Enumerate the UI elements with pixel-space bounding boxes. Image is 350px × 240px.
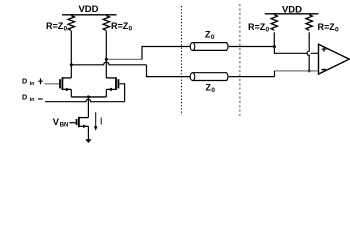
transistor M1 (left of diff pair) bbox=[59, 79, 61, 88]
node dot tail bbox=[87, 95, 90, 98]
transistor M3 (tail current source) bbox=[76, 119, 78, 125]
svg-text:R=Z: R=Z bbox=[248, 22, 266, 32]
wire left resistor to M1 drain bbox=[70, 31, 72, 78]
node dot M2 drain bbox=[105, 58, 108, 61]
svg-text:R=Z: R=Z bbox=[318, 22, 336, 32]
svg-text:0: 0 bbox=[64, 26, 68, 33]
op-amp receiver bbox=[319, 44, 350, 74]
wire M2 gate lead bbox=[118, 84, 124, 102]
ground bbox=[85, 139, 91, 143]
resistor R=Z0 (left section, left) bbox=[68, 16, 74, 31]
wire M1 drain node to bottom line (hops over M2 drain wire) bbox=[71, 62, 146, 65]
transmission line Z0 (bottom) bbox=[193, 73, 229, 81]
resistor R=Z0 (right section, left) bbox=[271, 15, 277, 31]
wire VDD rail right bbox=[265, 13, 319, 15]
wire Din+ to M1 gate bbox=[45, 83, 60, 85]
transistor M2 (right of diff pair) bbox=[117, 79, 119, 88]
wire right resistor 2 down with hop over + wire bbox=[307, 32, 309, 71]
wire VBN to M3 gate bbox=[69, 122, 76, 124]
svg-text:R=Z: R=Z bbox=[111, 21, 129, 31]
resistor R=Z0 (left section, right) bbox=[103, 16, 109, 31]
wire bottom line up-jog bbox=[274, 71, 276, 77]
wire top line output bbox=[229, 46, 275, 48]
wire bottom line output bbox=[229, 76, 275, 78]
svg-text:0: 0 bbox=[211, 34, 215, 41]
wire - input line bbox=[275, 70, 319, 72]
boundary dashed line (right, gray) bbox=[239, 4, 241, 116]
node dot + termination bbox=[273, 45, 276, 48]
svg-text:D: D bbox=[22, 93, 27, 102]
plus input mark bbox=[322, 47, 327, 52]
resistor R=Z0 (right section, right) bbox=[306, 15, 312, 31]
wire right resistor to M2 drain bbox=[105, 31, 107, 78]
svg-text:0: 0 bbox=[211, 87, 215, 94]
wire VDD rail left bbox=[62, 14, 117, 16]
wire jog down to bottom transmission line bbox=[147, 65, 191, 77]
wire M2 drain node to top line jog bbox=[106, 58, 142, 60]
wire tail down to M3 drain bbox=[87, 97, 89, 118]
wire M3 source to ground bbox=[87, 126, 89, 139]
svg-text:BN: BN bbox=[60, 123, 69, 129]
svg-text:R=Z: R=Z bbox=[46, 21, 64, 31]
svg-text:I: I bbox=[100, 115, 103, 127]
svg-text:VDD: VDD bbox=[78, 4, 98, 15]
wire jog up to top transmission line bbox=[142, 47, 191, 60]
svg-text:0: 0 bbox=[335, 26, 339, 33]
wire Din- to M2 gate (hops over tail wire) bbox=[45, 99, 125, 101]
svg-text:in: in bbox=[30, 97, 35, 103]
node dot - termination bbox=[308, 69, 311, 72]
svg-text:D: D bbox=[22, 76, 27, 85]
svg-text:0: 0 bbox=[266, 26, 270, 33]
wire + node jog into amp (gap where vertical hops) bbox=[274, 47, 318, 54]
svg-text:in: in bbox=[30, 81, 35, 87]
minus input mark bbox=[322, 69, 326, 71]
svg-text:0: 0 bbox=[129, 26, 133, 33]
transmission line Z0 (top) bbox=[193, 43, 229, 51]
boundary dotted line (left) bbox=[181, 6, 183, 115]
current arrow I bbox=[95, 112, 97, 126]
wire right termination resistor to + node bbox=[273, 32, 275, 46]
node dot M1 drain bbox=[70, 63, 73, 66]
wire common source rail bbox=[71, 96, 106, 98]
